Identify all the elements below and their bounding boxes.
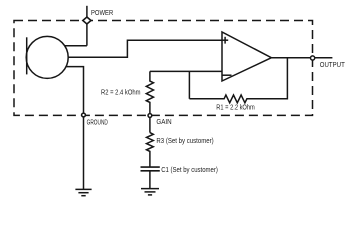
svg-text:GROUND: GROUND [87,119,108,126]
wire output [271,57,332,59]
svg-text:POWER: POWER [91,10,113,17]
node OUTPUT (terminal) [311,56,315,60]
svg-text:R1 = 2.2 kOhm: R1 = 2.2 kOhm [216,105,255,112]
node POWER (diamond terminal) [83,17,91,24]
ground symbol right [141,189,159,195]
svg-text:R2 = 2.4 kOhm: R2 = 2.4 kOhm [101,89,141,96]
capacitor C1 [141,167,160,171]
resistor R2 [146,71,153,115]
ground symbol left [75,189,91,195]
svg-text:OUTPUT: OUTPUT [320,62,345,69]
wire C1 to ground symbol [149,171,151,189]
svg-text:GAIN: GAIN [156,119,171,126]
op-amp U1 [222,32,271,81]
resistor R3 [147,133,154,168]
wire gain node to R3 [149,116,151,133]
resistor R1 [189,58,287,103]
wire ground node to ground symbol [83,115,85,189]
node GAIN (terminal) [148,114,152,118]
op-amp + input marker [222,39,228,41]
op-amp - input marker [223,74,232,76]
wire inverting input net [150,70,222,72]
svg-text:R3 (Set by customer): R3 (Set by customer) [156,138,213,145]
dashed enclosure border [14,21,313,116]
svg-text:C1 (Set by customer): C1 (Set by customer) [161,167,218,174]
microphone MK1 [26,36,68,78]
wire mic middle to op-amp + input [68,40,222,57]
wire mic lower to ground node [66,67,84,115]
wire feedback tap down [188,71,190,98]
node GROUND (terminal) [82,113,86,117]
wire mic top to power [65,45,87,47]
wire POWER stub [86,6,88,46]
